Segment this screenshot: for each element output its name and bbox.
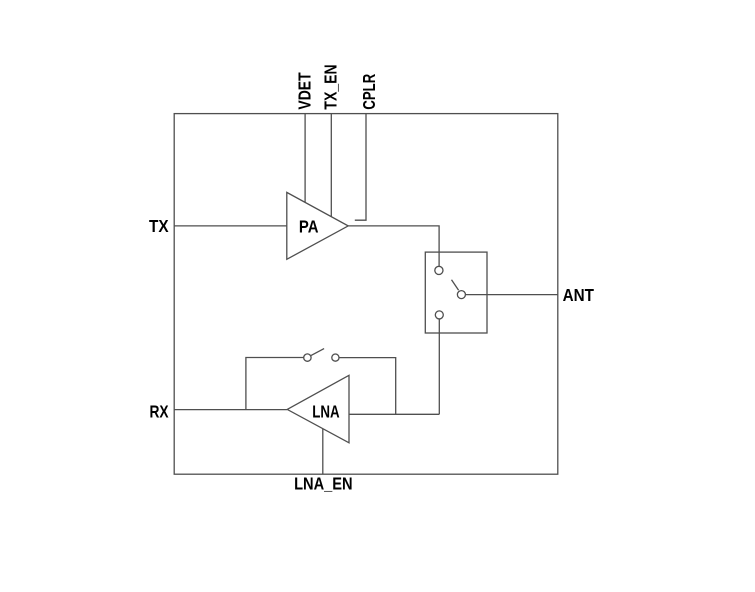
antenna switch box <box>425 252 487 333</box>
wire VDET <box>304 114 306 203</box>
switch contact RX (bottom) <box>435 311 443 319</box>
wire bypass left <box>246 358 304 410</box>
svg-text:LNA: LNA <box>312 401 340 421</box>
wire LNA output <box>349 413 439 415</box>
bypass switch contact left <box>304 354 311 361</box>
svg-text:TX: TX <box>149 216 169 236</box>
svg-text:VDET: VDET <box>294 72 314 109</box>
wire bypass right <box>339 358 396 415</box>
svg-text:CPLR: CPLR <box>359 74 379 110</box>
chip boundary box <box>174 114 558 475</box>
wire switch to LNA output node <box>438 319 440 414</box>
amplifier PA <box>287 192 348 259</box>
switch contact TX (top) <box>435 266 443 274</box>
wire PA output to switch <box>348 226 439 266</box>
svg-text:ANT: ANT <box>563 285 595 305</box>
svg-text:PA: PA <box>299 216 319 236</box>
wire ANT <box>465 294 557 296</box>
wire LNA_EN <box>322 429 324 474</box>
svg-text:LNA_EN: LNA_EN <box>294 474 353 494</box>
wire CPLR with hook <box>355 114 366 221</box>
bypass switch contact right <box>332 354 339 361</box>
wire TX_EN <box>330 114 332 217</box>
switch arm <box>452 280 459 291</box>
amplifier LNA <box>287 375 349 443</box>
bypass switch arm <box>311 349 324 356</box>
svg-text:TX_EN: TX_EN <box>321 64 341 109</box>
switch contact common <box>457 291 465 299</box>
wire RX input <box>174 409 287 411</box>
wire TX input <box>174 225 287 227</box>
svg-text:RX: RX <box>150 402 169 422</box>
